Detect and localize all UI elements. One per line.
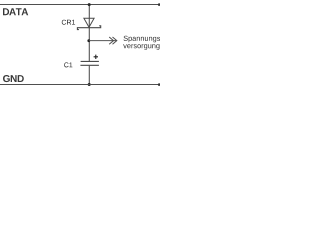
- wire arrow line to Spannungsversorgung: [89, 40, 116, 42]
- node GND label: [3, 75, 24, 82]
- wire GND rail (bottom horizontal): [0, 84, 160, 86]
- diode CR1 schottky bar (cathode): [77, 26, 100, 30]
- capacitor C1 label: [64, 62, 72, 67]
- node arrow chevron 2: [113, 37, 117, 44]
- node right end of GND rail: [158, 83, 161, 86]
- wire capacitor to GND rail: [88, 65, 90, 84]
- junction at DATA rail: [88, 3, 91, 6]
- node DATA label: [3, 8, 28, 15]
- capacitor C1 bottom plate: [80, 64, 99, 66]
- node right end of DATA rail: [158, 3, 161, 6]
- node Spannungsversorgung label line 1: [124, 36, 161, 43]
- diode CR1 triangle (anode): [84, 18, 94, 27]
- junction at arrow tap: [87, 39, 90, 42]
- capacitor C1 polarity plus sign: [94, 55, 98, 59]
- junction at GND rail: [88, 83, 91, 86]
- node arrow chevron 1: [109, 37, 113, 44]
- wire vertical from DATA rail to capacitor: [88, 5, 90, 62]
- diode CR1 label: [62, 20, 75, 25]
- node Spannungsversorgung label line 2: [123, 44, 159, 50]
- capacitor C1 top plate: [81, 60, 99, 62]
- wire DATA rail (top horizontal): [0, 4, 160, 6]
